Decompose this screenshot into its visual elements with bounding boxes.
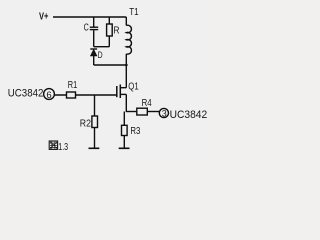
circle pin 3: [159, 108, 168, 117]
wire top rail V+: [53, 16, 126, 18]
wire resistor R bottom stub: [108, 36, 110, 47]
resistor R4 box: [137, 108, 148, 115]
resistor R3 box: [122, 125, 128, 135]
svg-text:R3: R3: [130, 126, 140, 137]
wire clamp node RC junction: [94, 46, 110, 48]
svg-text:R: R: [114, 26, 120, 37]
resistor R box: [107, 24, 113, 36]
wire diode anode stub: [93, 56, 95, 65]
svg-text:3: 3: [162, 108, 167, 118]
svg-text:Q1: Q1: [128, 82, 139, 93]
wire R3 bottom stub: [123, 136, 125, 149]
wire R4 to pin 3: [147, 111, 159, 113]
wire R3 top stub: [123, 112, 125, 126]
capacitor C: [90, 27, 98, 29]
wire drain vertical: [125, 65, 127, 88]
diode D: [90, 49, 97, 56]
wire capacitor bottom stub: [93, 30, 95, 47]
wire resistor R top stub: [108, 17, 110, 24]
wire R2 branch vertical: [94, 95, 96, 116]
transformer T1 primary winding: [126, 17, 131, 65]
resistor R2 box: [92, 116, 98, 128]
wire gate line: [54, 94, 117, 96]
ground left: [89, 147, 100, 149]
node drain junction: [125, 64, 128, 67]
svg-text:C: C: [84, 22, 89, 33]
svg-text:V+: V+: [39, 11, 49, 22]
svg-text:T1: T1: [129, 7, 139, 18]
wire R2 bottom stub: [94, 128, 96, 149]
resistor R1 box: [67, 92, 76, 98]
svg-text:6: 6: [46, 90, 51, 101]
svg-text:UC3842: UC3842: [8, 87, 44, 99]
svg-text:R4: R4: [142, 98, 152, 109]
wire clamp bottom to drain node: [94, 64, 127, 66]
svg-text:D: D: [98, 50, 103, 61]
transistor Q1: [117, 85, 127, 99]
caption figure glyph: [49, 141, 57, 149]
ground right: [119, 147, 130, 149]
svg-text:R2: R2: [80, 118, 91, 129]
wire source node line: [126, 111, 137, 113]
wire capacitor top stub: [93, 17, 95, 27]
wire source vertical: [125, 94, 127, 111]
svg-text:1.3: 1.3: [58, 142, 68, 153]
svg-text:R1: R1: [68, 80, 78, 91]
svg-text:UC3842: UC3842: [170, 109, 208, 121]
circle pin 6: [44, 89, 55, 100]
